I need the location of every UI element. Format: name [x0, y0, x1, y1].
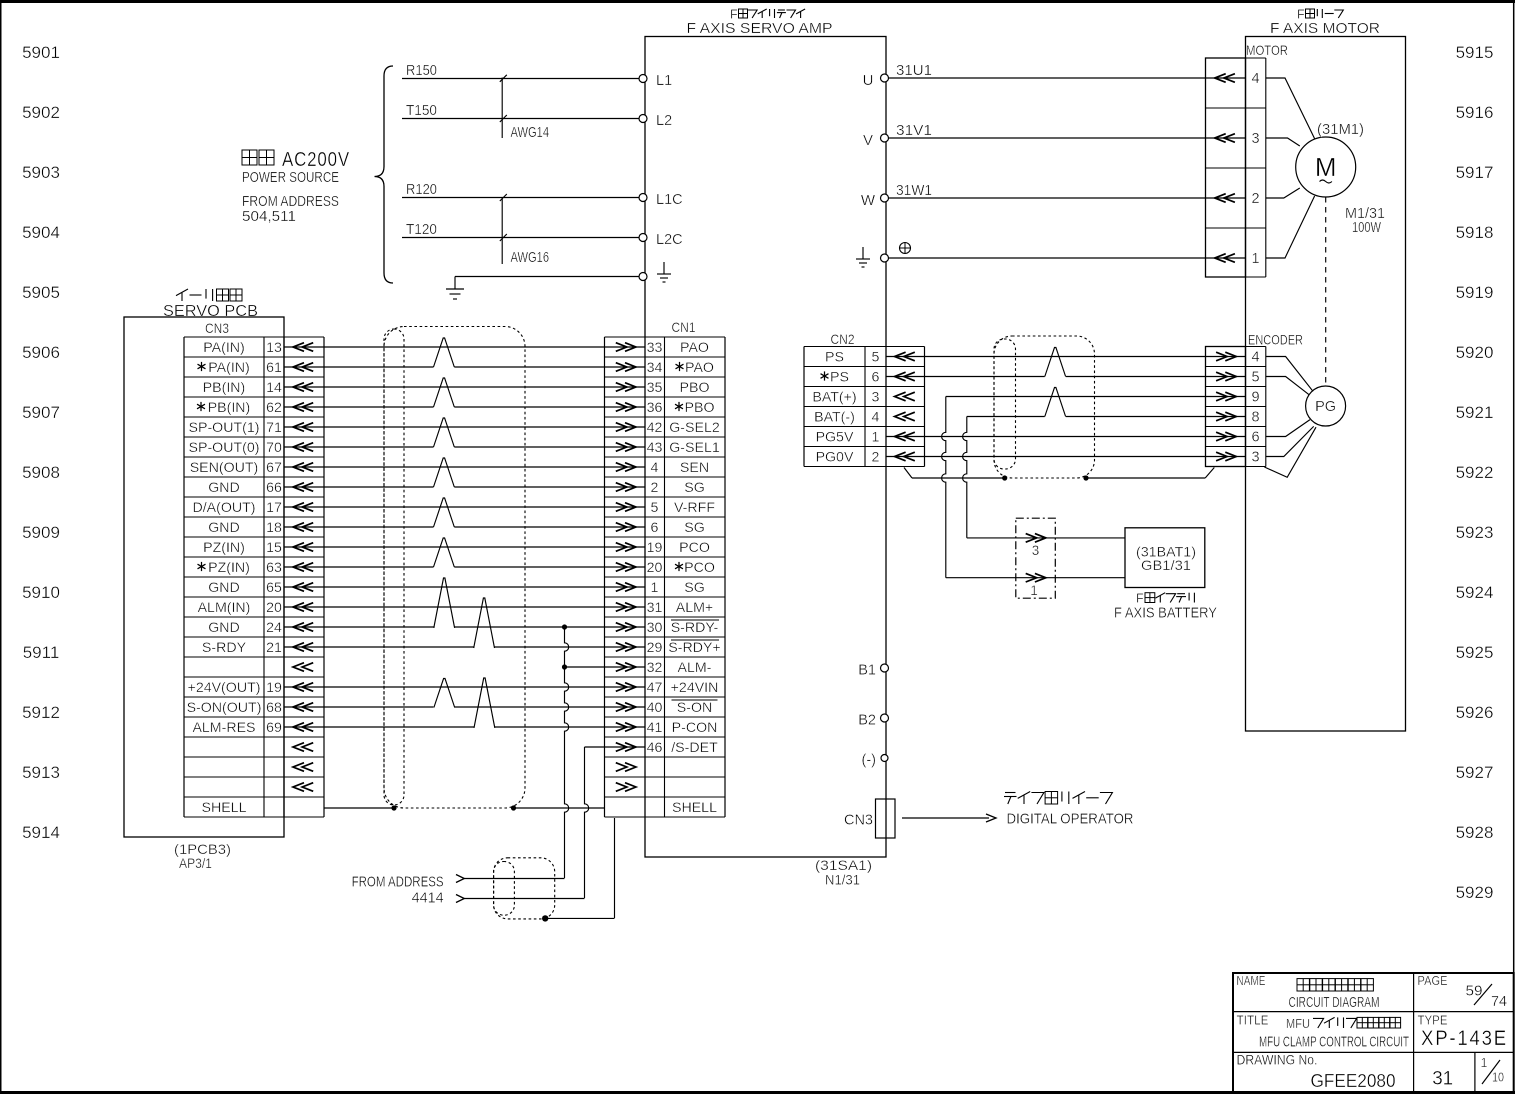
- svg-text:15: 15: [266, 540, 282, 556]
- svg-text:63: 63: [266, 560, 282, 576]
- svg-text:SHELL: SHELL: [202, 800, 247, 816]
- CN1 row 12 arrow: [616, 583, 627, 592]
- twisted pair PS: [1045, 348, 1066, 377]
- CN1 row 7 arrow: [616, 483, 627, 492]
- svg-text:17: 17: [266, 500, 282, 516]
- wire ALM- from junction: [565, 666, 646, 668]
- svg-text:18: 18: [266, 520, 282, 536]
- CN2 shell wire: [904, 468, 912, 479]
- svg-text:24: 24: [266, 620, 282, 636]
- svg-text:65: 65: [266, 580, 282, 596]
- svg-text:32: 32: [647, 660, 663, 676]
- CN3 row 22 arrow: [293, 783, 304, 792]
- svg-text:L2C: L2C: [656, 232, 683, 248]
- CN1 row 22 arrow: [616, 783, 627, 792]
- svg-text:CN3: CN3: [844, 813, 873, 829]
- title block: [1233, 973, 1514, 1092]
- CN3 table: [183, 337, 185, 817]
- svg-text:13: 13: [266, 340, 282, 356]
- wire PE to motor: [889, 257, 1246, 259]
- CN1 row 14 arrow: [616, 623, 627, 632]
- CN1 table: [604, 337, 606, 817]
- svg-text:CN2: CN2: [831, 331, 855, 347]
- CN1 row 6 arrow: [616, 463, 627, 472]
- svg-text:XP-143E: XP-143E: [1421, 1027, 1508, 1050]
- wire /S-DET from below: [585, 746, 646, 748]
- svg-text:5924: 5924: [1456, 583, 1494, 602]
- svg-text:5: 5: [1252, 370, 1260, 386]
- from-address shield: [494, 858, 555, 919]
- wire CN3 row 13 to CN1: [284, 606, 645, 608]
- battery connector (dash-dot box): [1016, 518, 1056, 598]
- svg-text:PAO: PAO: [685, 360, 714, 376]
- svg-text:SEN: SEN: [680, 460, 709, 476]
- motor connector pins 4 3 2 1: [1215, 74, 1226, 83]
- svg-text:5901: 5901: [22, 43, 60, 62]
- from-address arrow 1: [456, 875, 464, 883]
- CN1 row 2 arrow: [616, 383, 627, 392]
- cable AWG16: [501, 197, 503, 264]
- svg-text:BAT(-): BAT(-): [814, 410, 855, 426]
- svg-text:PB(IN): PB(IN): [203, 380, 246, 396]
- CN3 row 14 arrow: [293, 623, 304, 632]
- svg-text:5923: 5923: [1456, 523, 1494, 542]
- svg-text:31: 31: [647, 600, 663, 616]
- svg-text:21: 21: [266, 640, 282, 656]
- svg-text:1: 1: [872, 430, 880, 446]
- wire CN3 row 3 to CN1: [284, 406, 434, 408]
- PE symbol circled cross: [900, 243, 911, 254]
- CN1 row 21 arrow: [616, 763, 627, 772]
- motor circle M: [1296, 137, 1356, 197]
- wire CN3 row 19 to CN1: [284, 726, 474, 728]
- svg-text:31V1: 31V1: [896, 123, 932, 139]
- svg-text:74: 74: [1491, 993, 1507, 1010]
- wire CN3 row 10 to CN1: [284, 546, 645, 548]
- cable AWG14: [501, 78, 503, 139]
- junction vertical A (GND/ALM-/S-RDY- common): [562, 624, 567, 629]
- CN3 row 21 arrow: [293, 763, 304, 772]
- svg-text:5905: 5905: [22, 283, 60, 302]
- svg-text:2: 2: [872, 450, 880, 466]
- svg-text:5916: 5916: [1456, 103, 1494, 122]
- shield junction dots: [391, 805, 396, 810]
- ground wire: [455, 276, 639, 278]
- svg-text:5: 5: [872, 350, 880, 366]
- wire CN3 row 0 to CN1: [284, 346, 645, 348]
- svg-text:5904: 5904: [22, 223, 60, 242]
- wire CN3 row 12 to CN1: [284, 586, 645, 588]
- CN1 row 5 arrow: [616, 443, 627, 452]
- svg-text:8: 8: [1252, 410, 1260, 426]
- svg-text:GND: GND: [208, 520, 240, 536]
- svg-text:1: 1: [1481, 1056, 1488, 1070]
- svg-text:W: W: [861, 192, 876, 209]
- svg-text:30: 30: [647, 620, 663, 636]
- svg-text:DRAWING No.: DRAWING No.: [1237, 1052, 1318, 1068]
- svg-text:ENCODER: ENCODER: [1248, 332, 1303, 348]
- svg-text:3: 3: [1252, 131, 1260, 147]
- svg-text:29: 29: [647, 640, 663, 656]
- svg-text:5909: 5909: [22, 523, 60, 542]
- svg-text:5906: 5906: [22, 343, 60, 362]
- servo amp box: [645, 37, 886, 858]
- svg-text:42: 42: [647, 420, 663, 436]
- wire encoder 9 to battery vertical: [946, 396, 1246, 398]
- twisted pair BAT: [1045, 388, 1066, 417]
- svg-text:504,511: 504,511: [242, 208, 296, 225]
- svg-text:43: 43: [647, 440, 663, 456]
- svg-text:5910: 5910: [22, 583, 60, 602]
- svg-text:GB1/31: GB1/31: [1141, 557, 1191, 573]
- svg-text:V-RFF: V-RFF: [674, 500, 715, 516]
- svg-text:PG0V: PG0V: [816, 450, 854, 466]
- svg-text:AC200V: AC200V: [282, 149, 350, 171]
- svg-text:47: 47: [647, 680, 663, 696]
- battery wire pin1: [946, 577, 1125, 579]
- shell wire CN1 side: [514, 807, 605, 809]
- svg-text:5929: 5929: [1456, 883, 1494, 902]
- svg-text:5902: 5902: [22, 103, 60, 122]
- motor pin wires: [1266, 78, 1315, 139]
- svg-text:67: 67: [266, 460, 282, 476]
- label: power source Japanese + AC200V: [242, 150, 257, 165]
- svg-text:4: 4: [1252, 71, 1260, 87]
- CN3 row 1 arrow: [293, 363, 304, 372]
- svg-text:66: 66: [266, 480, 282, 496]
- svg-text:3: 3: [872, 390, 880, 406]
- svg-text:BAT(+): BAT(+): [812, 390, 856, 406]
- CN1 row 3 arrow: [616, 403, 627, 412]
- svg-text:SG: SG: [684, 520, 705, 536]
- svg-text:MFU CLAMP CONTROL CIRCUIT: MFU CLAMP CONTROL CIRCUIT: [1259, 1034, 1409, 1051]
- svg-text:36: 36: [647, 400, 663, 416]
- svg-text:41: 41: [647, 720, 663, 736]
- svg-text:PCO: PCO: [679, 540, 710, 556]
- svg-text:PZ(IN): PZ(IN): [208, 560, 250, 576]
- from-address arrow 2: [456, 895, 464, 903]
- CN3 row 2 arrow: [293, 383, 304, 392]
- wire PS to encoder 4: [886, 356, 1246, 358]
- CN1 row 13 arrow: [616, 603, 627, 612]
- svg-text:PS: PS: [830, 370, 849, 386]
- svg-text:PAO: PAO: [680, 340, 709, 356]
- svg-text:5919: 5919: [1456, 283, 1494, 302]
- svg-text:4: 4: [651, 460, 659, 476]
- svg-text:40: 40: [647, 700, 663, 716]
- svg-text:5908: 5908: [22, 463, 60, 482]
- CN3 row 9 arrow: [293, 523, 304, 532]
- svg-text:34: 34: [647, 360, 663, 376]
- CN1 row 15 arrow: [616, 643, 627, 652]
- svg-text:5918: 5918: [1456, 223, 1494, 242]
- battery wire pin3: [967, 537, 1125, 539]
- shell wire CN3 side: [324, 807, 394, 809]
- wire CN3 row 4 to CN1: [284, 426, 645, 428]
- svg-text:S-ON(OUT): S-ON(OUT): [187, 700, 262, 716]
- svg-text:AWG14: AWG14: [511, 125, 550, 141]
- svg-text:B2: B2: [858, 713, 876, 729]
- svg-text:TYPE: TYPE: [1418, 1014, 1448, 1028]
- svg-text:5911: 5911: [23, 643, 60, 662]
- CN2 row 1 arrow: [895, 372, 906, 381]
- PG circle: [1306, 386, 1346, 426]
- svg-text:31W1: 31W1: [896, 183, 932, 199]
- svg-text:N1/31: N1/31: [825, 872, 860, 888]
- encoder pin wires to PG: [1266, 357, 1313, 392]
- CN1 row 8 arrow: [616, 503, 627, 512]
- svg-text:5914: 5914: [22, 823, 60, 842]
- svg-text:T120: T120: [406, 222, 437, 238]
- CN3 row 13 arrow: [293, 603, 304, 612]
- earth glyph at amp output: [862, 247, 864, 259]
- svg-text:ALM-: ALM-: [678, 660, 712, 676]
- svg-text:69: 69: [266, 720, 282, 736]
- CN3 row 4 arrow: [293, 423, 304, 432]
- svg-text:5: 5: [651, 500, 659, 516]
- CN3 row 3 arrow: [293, 403, 304, 412]
- CN1 row 0 arrow: [616, 343, 627, 352]
- svg-text:L2: L2: [656, 113, 672, 129]
- dashed link motor to PG: [1325, 197, 1327, 386]
- wire CN3 row 18 to CN1: [284, 706, 433, 708]
- pin B2: [881, 714, 889, 722]
- svg-text:5925: 5925: [1456, 643, 1494, 662]
- svg-text:GND: GND: [208, 480, 240, 496]
- svg-text:4414: 4414: [412, 890, 444, 907]
- wire CN3 row 11 to CN1: [284, 566, 434, 568]
- CN3 row 8 arrow: [293, 503, 304, 512]
- svg-text:(-): (-): [862, 753, 877, 769]
- CN1 row 17 arrow: [616, 683, 627, 692]
- svg-text:5928: 5928: [1456, 823, 1494, 842]
- CN1 row 20 arrow: [616, 743, 627, 752]
- svg-text:TITLE: TITLE: [1237, 1014, 1269, 1028]
- CN3 row 12 arrow: [293, 583, 304, 592]
- svg-text:3: 3: [1032, 543, 1040, 558]
- svg-text:PG5V: PG5V: [816, 430, 854, 446]
- svg-text:F AXIS MOTOR: F AXIS MOTOR: [1270, 20, 1380, 37]
- svg-text:PZ(IN): PZ(IN): [203, 540, 245, 556]
- svg-text:71: 71: [266, 420, 282, 436]
- svg-text:SP-OUT(0): SP-OUT(0): [189, 440, 260, 456]
- svg-text:(31M1): (31M1): [1317, 122, 1364, 138]
- CN1 row 4 arrow: [616, 423, 627, 432]
- svg-text:+24V(OUT): +24V(OUT): [188, 680, 261, 696]
- svg-text:SHELL: SHELL: [672, 800, 717, 816]
- svg-text:G-SEL1: G-SEL1: [669, 440, 720, 456]
- CN2-encoder shield: [994, 336, 1095, 478]
- svg-text:DIGITAL OPERATOR: DIGITAL OPERATOR: [1007, 811, 1134, 828]
- svg-text:6: 6: [872, 370, 880, 386]
- svg-text:5915: 5915: [1456, 43, 1494, 62]
- wire CN3 row 14 to CN1: [284, 626, 435, 628]
- encoder connector box: [1206, 347, 1246, 467]
- svg-text:MFU: MFU: [1286, 1016, 1310, 1031]
- CN3 row 5 arrow: [293, 443, 304, 452]
- svg-text:31U1: 31U1: [896, 63, 932, 79]
- servo pcb box: [124, 317, 284, 837]
- svg-text:5926: 5926: [1456, 703, 1494, 722]
- CN3 row 7 arrow: [293, 483, 304, 492]
- svg-text:V: V: [863, 132, 873, 149]
- svg-text:AP3/1: AP3/1: [179, 855, 212, 871]
- wire CN3 row 15 to CN1: [284, 646, 474, 648]
- CN3 row 0 arrow: [293, 343, 304, 352]
- CN1 row 18 arrow: [616, 703, 627, 712]
- svg-text:PBO: PBO: [685, 400, 715, 416]
- svg-text:20: 20: [266, 600, 282, 616]
- CN3 row 6 arrow: [293, 463, 304, 472]
- svg-text:SP-OUT(1): SP-OUT(1): [189, 420, 260, 436]
- svg-text:SG: SG: [684, 580, 705, 596]
- svg-text:6: 6: [651, 520, 659, 536]
- svg-text:10: 10: [1492, 1071, 1504, 1085]
- motor outer box: [1246, 37, 1406, 732]
- CN1 row 9 arrow: [616, 523, 627, 532]
- svg-text:5917: 5917: [1456, 163, 1494, 182]
- svg-text:2: 2: [1252, 191, 1260, 207]
- battery connector arrows + pins: [1026, 534, 1037, 543]
- svg-text:PCO: PCO: [684, 560, 715, 576]
- shield dot + wire to shell: [542, 915, 548, 921]
- svg-text:B1: B1: [858, 663, 876, 679]
- CN1 row 11 arrow: [616, 563, 627, 572]
- svg-text:GFEE2080: GFEE2080: [1311, 1070, 1396, 1091]
- CN3 row 19 arrow: [293, 723, 304, 732]
- wire CN3 row 2 to CN1: [284, 386, 645, 388]
- svg-text:5903: 5903: [22, 163, 60, 182]
- CN3 row 16 arrow: [293, 663, 304, 672]
- CN1 row 19 arrow: [616, 723, 627, 732]
- svg-text:5907: 5907: [22, 403, 60, 422]
- svg-text:PB(IN): PB(IN): [208, 400, 251, 416]
- battery box (31BAT1) GB1/31: [1125, 528, 1205, 588]
- svg-text:5921: 5921: [1456, 403, 1494, 422]
- CN2 arrow box: [924, 347, 926, 467]
- wire CN3 row 1 to CN1: [284, 366, 434, 368]
- cable shield CN3-CN1: [384, 327, 525, 809]
- earth glyph at amp input: [663, 262, 665, 274]
- twisted pair symbols CN3-CN1: [434, 338, 455, 367]
- svg-text:68: 68: [266, 700, 282, 716]
- svg-text:ALM(IN): ALM(IN): [198, 600, 251, 616]
- battery vertical wires: [942, 397, 946, 578]
- brace: [375, 66, 394, 283]
- svg-text:5912: 5912: [22, 703, 60, 722]
- amp input pins L1 L2 L1C L2C E: [639, 75, 647, 83]
- svg-text:9: 9: [1252, 390, 1260, 406]
- svg-text:1: 1: [1252, 251, 1260, 267]
- CN1 row 16 arrow: [616, 663, 627, 672]
- CN3 row 20 arrow: [293, 743, 304, 752]
- svg-text:CN3: CN3: [205, 320, 229, 336]
- svg-text:20: 20: [647, 560, 663, 576]
- svg-text:5927: 5927: [1456, 763, 1494, 782]
- svg-text:/S-DET: /S-DET: [671, 740, 718, 756]
- svg-text:PS: PS: [825, 350, 844, 366]
- CN3 row 11 arrow: [293, 563, 304, 572]
- svg-text:F AXIS BATTERY: F AXIS BATTERY: [1114, 606, 1217, 622]
- CN2 row 3 arrow: [895, 412, 906, 421]
- wire CN3 row 8 to CN1: [284, 506, 645, 508]
- svg-text:70: 70: [266, 440, 282, 456]
- svg-text:+24VIN: +24VIN: [671, 680, 719, 696]
- pin (-): [881, 755, 888, 762]
- svg-text:CN1: CN1: [672, 319, 696, 335]
- svg-text:6: 6: [1252, 430, 1260, 446]
- svg-text:4: 4: [1252, 350, 1260, 366]
- CN1 row 10 arrow: [616, 543, 627, 552]
- svg-text:4: 4: [872, 410, 880, 426]
- svg-text:S-ON: S-ON: [677, 700, 712, 716]
- svg-text:1: 1: [1030, 583, 1038, 598]
- CN3 row 18 arrow: [293, 703, 304, 712]
- svg-text:PAGE: PAGE: [1418, 974, 1448, 988]
- svg-text:5922: 5922: [1456, 463, 1494, 482]
- svg-text:PBO: PBO: [680, 380, 710, 396]
- svg-text:PG: PG: [1315, 399, 1336, 415]
- svg-text:L1C: L1C: [656, 192, 683, 208]
- svg-text:46: 46: [647, 740, 663, 756]
- svg-text:F AXIS SERVO AMP: F AXIS SERVO AMP: [687, 20, 833, 37]
- wire PG5V to encoder 6: [886, 436, 1246, 438]
- svg-text:ALM-RES: ALM-RES: [192, 720, 255, 736]
- label digital operator (JP): [1004, 793, 1017, 805]
- wire encoder 8 to battery vertical: [967, 416, 1045, 418]
- svg-text:1: 1: [651, 580, 659, 596]
- pin B1: [881, 664, 889, 672]
- svg-text:S-RDY-: S-RDY-: [671, 620, 719, 636]
- svg-text:14: 14: [266, 380, 282, 396]
- svg-text:59: 59: [1466, 983, 1483, 1000]
- svg-text:ALM+: ALM+: [676, 600, 713, 616]
- svg-text:3: 3: [1252, 450, 1260, 466]
- amp output pins U V W E: [881, 74, 889, 82]
- svg-text:S-RDY: S-RDY: [202, 640, 247, 656]
- junction vertical C (shell to shield): [614, 818, 616, 918]
- svg-text:100W: 100W: [1352, 220, 1381, 236]
- svg-text:GND: GND: [208, 620, 240, 636]
- svg-text:FROM ADDRESS: FROM ADDRESS: [352, 874, 444, 891]
- svg-text:MOTOR: MOTOR: [1246, 42, 1288, 58]
- wire CN3 row 5 to CN1: [284, 446, 434, 448]
- encoder shell to PG: [1264, 427, 1316, 477]
- CN3 row 10 arrow: [293, 543, 304, 552]
- svg-text:NAME: NAME: [1237, 974, 1266, 988]
- svg-text:5920: 5920: [1456, 343, 1494, 362]
- svg-text:33: 33: [647, 340, 663, 356]
- svg-text:2: 2: [651, 480, 659, 496]
- CN1 row 1 arrow: [616, 363, 627, 372]
- svg-text:5913: 5913: [22, 763, 60, 782]
- CN2 row 4 arrow: [895, 432, 906, 441]
- svg-text:P-CON: P-CON: [672, 720, 718, 736]
- wire CN3 row 7 to CN1: [284, 486, 434, 488]
- CN3 row 17 arrow: [293, 683, 304, 692]
- encoder pins 4 5 9 8 6 3: [1216, 352, 1227, 361]
- CN3 operator connector: [876, 799, 896, 838]
- CN2 row 0 arrow: [895, 352, 906, 361]
- svg-text:PA(IN): PA(IN): [203, 340, 245, 356]
- svg-text:F: F: [1136, 592, 1144, 606]
- ground symbol: [454, 277, 456, 290]
- svg-text:POWER SOURCE: POWER SOURCE: [242, 169, 339, 186]
- svg-text:L1: L1: [656, 73, 672, 89]
- servo pcb label (JP): [176, 289, 188, 301]
- svg-text:T150: T150: [406, 103, 437, 119]
- svg-text:PA(IN): PA(IN): [208, 360, 250, 376]
